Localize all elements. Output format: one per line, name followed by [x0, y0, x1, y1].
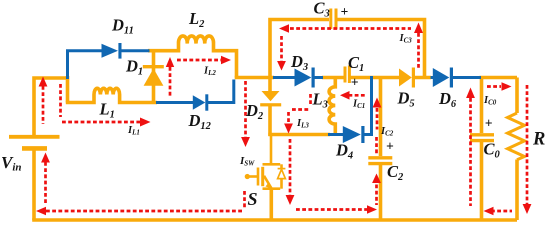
wire D2 column upper stub [268, 78, 272, 93]
diode D5 [399, 68, 415, 88]
svg-text:D12: D12 [188, 111, 212, 132]
diode D2 [260, 91, 281, 106]
wire dashed IC0 horizontal [487, 85, 501, 88]
wire dashed IC3 left down body [280, 36, 283, 61]
transistor S body diode bar [278, 168, 286, 170]
wire bottom rail [32, 218, 517, 222]
svg-text:C3: C3 [314, 0, 330, 20]
wire C3 left riser and top rail left half [270, 20, 329, 80]
svg-text:+: + [386, 139, 394, 154]
wire R bottom lead [515, 160, 519, 221]
svg-text:ISW: ISW [239, 155, 255, 168]
diode D4 [343, 126, 365, 143]
wire C2 riser [379, 79, 383, 156]
diode D3 [295, 68, 315, 88]
svg-text:D4: D4 [335, 141, 353, 162]
transistor S body diode top lead [280, 164, 283, 168]
wire dashed IC0 left vertical [469, 98, 472, 206]
wire dashed right outer vertical [526, 85, 529, 204]
svg-text:C1: C1 [348, 53, 364, 74]
svg-text:D11: D11 [111, 16, 134, 37]
diode D1 [143, 65, 164, 86]
wire dashed IL2 horizontal [177, 59, 221, 62]
transistor S emitter diagonal [264, 176, 271, 188]
svg-text:C2: C2 [387, 162, 404, 183]
svg-text:Vin: Vin [1, 153, 22, 174]
transistor S channel bar [261, 167, 264, 186]
wire main rail to C1 left plate [322, 76, 344, 80]
arrowhead up IC2 [372, 174, 381, 184]
arrowhead down Isw [241, 137, 250, 147]
wire main rail after D5 [414, 76, 431, 80]
wire C2 bottom lead [379, 165, 383, 220]
capacitor C3 left plate [329, 9, 332, 30]
wire dashed IL3 upper vertical [309, 94, 312, 106]
wire D6 cathode to output node [452, 76, 482, 79]
wire dashed bottom-right inner run [491, 210, 512, 213]
wire dashed IC3 up-arrow body [417, 33, 420, 70]
wire battery top lead [34, 78, 66, 137]
wire dashed IC3 top run [290, 27, 411, 30]
svg-text:+: + [351, 75, 359, 90]
transistor S bottom bar [263, 187, 281, 190]
wire blue top-left loop to D11 [68, 51, 102, 79]
capacitor C2 bottom plate [368, 162, 392, 165]
diode D6 [433, 68, 453, 88]
wire dashed S loop vertical [289, 139, 292, 195]
wire dashed loop left lower vertical [44, 162, 47, 205]
svg-text:IL3: IL3 [296, 118, 309, 130]
svg-text:IC0: IC0 [483, 95, 497, 107]
arrowhead left bottom-left run [36, 207, 46, 216]
arrowhead right S loop bottom [367, 205, 377, 214]
transistor S gate bar [257, 168, 260, 186]
svg-text:D1: D1 [125, 57, 143, 78]
wire dashed loop left inner vertical [59, 84, 62, 117]
inductor L2 with top wire and right riser [148, 36, 237, 78]
wire main rail C1 to D5 [351, 76, 401, 80]
arrowhead left bottom-right run [484, 207, 494, 216]
wire R top lead [515, 78, 519, 114]
svg-text:C0: C0 [484, 140, 501, 161]
capacitor C0 bottom plate [470, 139, 494, 142]
wire L1 rail to D12 [156, 101, 193, 104]
wire battery bottom lead [32, 148, 36, 220]
svg-text:D3: D3 [290, 52, 308, 73]
svg-text:L3: L3 [312, 90, 328, 111]
arrowhead down S loop [286, 195, 295, 205]
svg-text:+: + [485, 116, 493, 131]
svg-text:+: + [341, 4, 349, 19]
wire dashed bottom-left long run [46, 210, 242, 213]
wire dashed IC2 column lower [375, 185, 378, 206]
arrowhead up IC3 [414, 23, 423, 34]
arrowhead down IC3 left branch [277, 61, 286, 71]
arrowhead up IC0 left [466, 88, 475, 99]
wire dashed IC2 column upper [375, 137, 378, 154]
arrowhead up at battery top [39, 77, 48, 87]
capacitor C1 left plate [344, 67, 347, 83]
svg-text:D6: D6 [438, 89, 457, 110]
wire anode stub of D6 [431, 76, 434, 79]
wire C3 top rail right half and right riser [338, 20, 425, 78]
wire lower mid rail [268, 133, 330, 137]
wire D1 column [152, 52, 156, 103]
transistor S top bar [263, 163, 281, 166]
wire main rail left segment [235, 76, 274, 80]
arrowhead left IC3 [279, 24, 289, 33]
wire dashed S loop bottom run [296, 208, 367, 211]
transistor S collector lead [270, 135, 273, 165]
wire C0 bottom lead [480, 142, 484, 220]
wire D3 cathode stub [314, 76, 324, 79]
svg-text:IL2: IL2 [203, 66, 216, 78]
transistor S body diode triangle [278, 169, 286, 178]
transistor S emitter lead [269, 189, 273, 220]
diode D12 [193, 94, 209, 110]
arrowhead up at battery bottom [41, 153, 50, 163]
wire junction node down to L1 rail [66, 76, 70, 103]
transistor S body diode bottom lead [280, 179, 283, 189]
transistor S emitter arrowhead [266, 182, 272, 188]
arrowhead right IL2 [221, 56, 231, 65]
wire dashed IL1 run [62, 121, 140, 124]
svg-text:L2: L2 [188, 9, 205, 30]
wire D2 column lower stub [268, 104, 272, 136]
wire dashed IL3 horizontal [292, 108, 310, 111]
wire dashed loop left upper vertical [42, 86, 45, 124]
svg-text:S: S [248, 189, 258, 209]
wire dashed Isw vertical [244, 81, 247, 137]
capacitor C2 top plate [368, 156, 392, 159]
wire D12 cathode rising to main rail [207, 80, 234, 103]
arrowhead down right outer [523, 204, 532, 214]
transistor S gate lead [250, 175, 258, 178]
wire main rail right segment to R [480, 76, 518, 80]
svg-text:D5: D5 [397, 89, 415, 110]
svg-text:L1: L1 [99, 100, 115, 121]
svg-text:IC3: IC3 [399, 33, 413, 45]
wire dashed IC1 vertical [376, 108, 379, 130]
battery Vin long plate [9, 135, 60, 139]
inductor L1 [66, 88, 157, 102]
svg-text:IL1: IL1 [127, 125, 140, 137]
inductor L3 [329, 79, 335, 135]
arrowhead up IL2 [166, 57, 174, 67]
wire dashed IL3 lower vertical [287, 112, 290, 123]
wire C0 riser [480, 79, 484, 133]
arrowhead left IC1 [340, 91, 350, 100]
svg-text:IC1: IC1 [352, 99, 365, 111]
wire D11 cathode to L2 [121, 49, 150, 52]
wire dashed corner up toward S [243, 191, 246, 209]
arrowhead up IC1 [373, 98, 382, 108]
capacitor C1 right plate [348, 66, 351, 84]
diode D11 [102, 43, 122, 59]
svg-text:R: R [532, 130, 545, 150]
resistor R [508, 113, 525, 160]
wire dashed IL2 vertical [169, 67, 172, 97]
wire dashed IC1 horizontal [349, 94, 368, 97]
svg-text:IC2: IC2 [380, 126, 394, 138]
wire main rail to D3 [273, 76, 295, 79]
battery Vin short plate [22, 146, 47, 151]
transistor S gate terminal dot [245, 174, 250, 179]
arrowhead down IL3 [284, 124, 293, 134]
capacitor C0 top plate [470, 133, 494, 136]
wire D4 cathode rising to main rail [363, 76, 372, 135]
arrowhead right IL1 [140, 118, 151, 127]
capacitor C3 right plate [335, 9, 338, 30]
arrowhead right IC0 [502, 82, 512, 91]
wire lower rail to D4 [328, 133, 343, 136]
